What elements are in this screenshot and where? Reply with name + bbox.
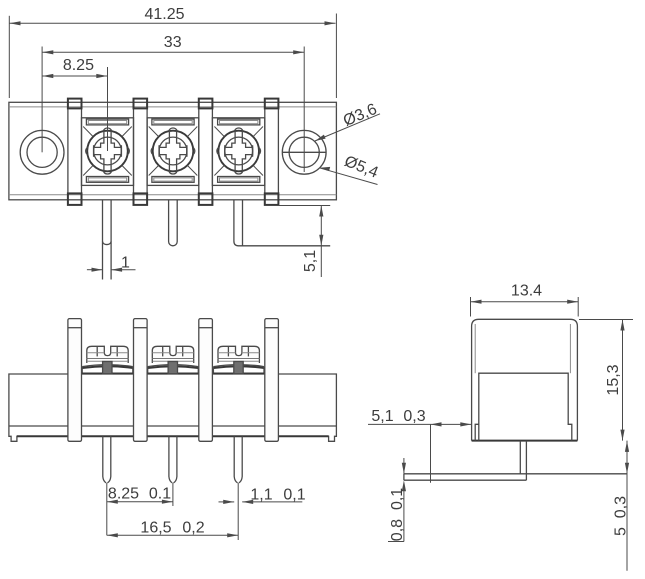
svg-text:0.1: 0.1 xyxy=(149,486,171,503)
svg-text:13.4: 13.4 xyxy=(511,283,542,300)
svg-text:33: 33 xyxy=(164,34,182,51)
svg-text:0,1: 0,1 xyxy=(283,487,305,504)
svg-text:15,3: 15,3 xyxy=(605,364,622,395)
svg-text:5 0,3: 5 0,3 xyxy=(613,496,630,536)
svg-text:8.25: 8.25 xyxy=(63,57,94,74)
svg-text:5,1: 5,1 xyxy=(302,250,319,272)
svg-text:16,5: 16,5 xyxy=(140,520,171,537)
svg-text:8.25: 8.25 xyxy=(108,486,139,503)
svg-text:0,2: 0,2 xyxy=(182,520,204,537)
svg-text:0,3: 0,3 xyxy=(403,408,425,425)
svg-text:0,8 0,1: 0,8 0,1 xyxy=(389,488,406,541)
svg-text:1: 1 xyxy=(121,254,130,271)
svg-text:1,1: 1,1 xyxy=(250,487,272,504)
svg-text:5,1: 5,1 xyxy=(371,408,393,425)
svg-text:41.25: 41.25 xyxy=(144,6,184,23)
